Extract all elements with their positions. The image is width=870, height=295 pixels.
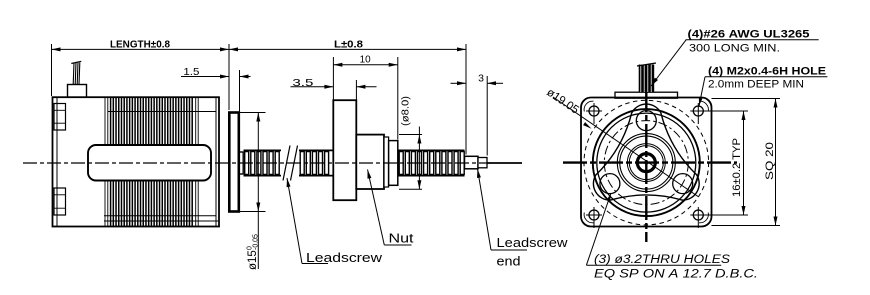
svg-text:(4) M2x0.4-6H HOLE: (4) M2x0.4-6H HOLE [708, 66, 826, 78]
svg-text:LENGTH±0.8: LENGTH±0.8 [110, 38, 170, 50]
svg-text:L±0.8: L±0.8 [334, 38, 363, 50]
svg-text:SQ 20: SQ 20 [764, 142, 776, 180]
svg-text:Leadscrew: Leadscrew [306, 251, 383, 265]
svg-text:16±0.2 TYP: 16±0.2 TYP [731, 138, 743, 197]
svg-text:ø15: ø15 [247, 250, 259, 270]
svg-text:3: 3 [478, 73, 484, 85]
svg-text:Nut: Nut [389, 232, 415, 246]
svg-text:end: end [497, 255, 521, 269]
svg-text:1.5: 1.5 [183, 66, 199, 78]
svg-text:(4)#26 AWG UL3265: (4)#26 AWG UL3265 [688, 28, 810, 40]
svg-text:3.5: 3.5 [292, 77, 313, 89]
svg-text:10: 10 [360, 53, 371, 65]
svg-text:2.0mm DEEP MIN: 2.0mm DEEP MIN [708, 78, 804, 90]
svg-text:EQ SP ON A 12.7 D.B.C.: EQ SP ON A 12.7 D.B.C. [594, 268, 758, 280]
svg-text:Leadscrew: Leadscrew [497, 236, 569, 250]
svg-text:(ø8.0): (ø8.0) [400, 96, 412, 126]
svg-text:-0.05: -0.05 [253, 234, 260, 250]
svg-text:(3) ø3.2THRU HOLES: (3) ø3.2THRU HOLES [594, 254, 730, 266]
svg-text:300 LONG MIN.: 300 LONG MIN. [689, 42, 780, 54]
